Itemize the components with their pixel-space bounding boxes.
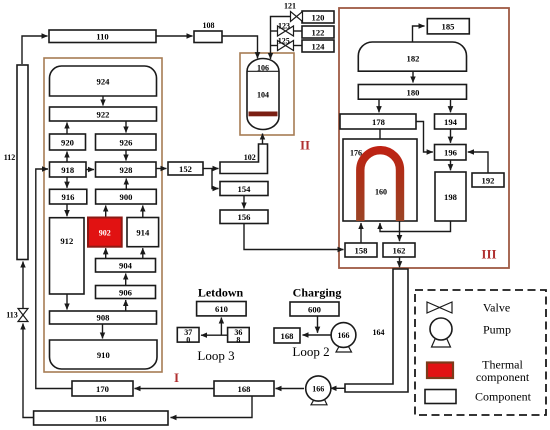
wire 108 to tank top <box>222 36 258 58</box>
component 158 <box>345 243 377 257</box>
component 914 <box>127 218 159 247</box>
svg-text:928: 928 <box>120 165 134 175</box>
wire 154 to 156 <box>243 196 245 209</box>
wire 170 to 918 <box>36 169 72 389</box>
component 370 <box>177 328 199 343</box>
component 922 <box>50 107 157 121</box>
svg-text:106: 106 <box>257 64 269 73</box>
svg-text:920: 920 <box>61 138 74 148</box>
svg-text:Pump: Pump <box>483 323 511 337</box>
svg-text:121: 121 <box>284 2 296 11</box>
wire 178 to 196 <box>416 122 433 153</box>
wire pipe 102 to tank bottom <box>262 134 264 145</box>
component 610 <box>197 302 247 316</box>
wire 922 to 926 <box>125 121 127 133</box>
wire 924 to 922 <box>102 96 104 106</box>
svg-text:196: 196 <box>444 148 458 158</box>
svg-text:158: 158 <box>355 246 369 256</box>
svg-text:108: 108 <box>203 21 215 30</box>
wire 914 to 900 <box>142 206 144 218</box>
wire 368 to 370 <box>201 334 228 336</box>
component 156 <box>220 210 268 224</box>
component 920 <box>50 134 86 150</box>
valve 125 <box>278 41 294 51</box>
wire junction to 610 <box>220 318 222 336</box>
component 176 box <box>343 139 417 221</box>
wire pipe 164 to pump 166 <box>331 387 346 389</box>
component 108 <box>194 31 222 43</box>
svg-text:192: 192 <box>482 176 495 186</box>
svg-text:component: component <box>476 370 530 384</box>
svg-text:120: 120 <box>312 13 325 23</box>
legend component <box>425 390 456 404</box>
wire 918 to 928 <box>86 169 94 171</box>
region I border <box>44 58 162 372</box>
wire to valve 123 <box>271 30 278 32</box>
pipe 164 <box>345 269 408 392</box>
wire valve 113 to 112 <box>22 262 24 309</box>
pump 166 charging <box>336 347 352 353</box>
component 168 bottom <box>214 381 274 396</box>
svg-text:910: 910 <box>97 350 110 360</box>
wire 904 to 914 <box>142 248 144 258</box>
svg-text:Charging: Charging <box>293 286 342 300</box>
valve 121 <box>291 12 303 22</box>
svg-text:8: 8 <box>236 336 240 345</box>
svg-text:II: II <box>300 138 310 153</box>
component 918 <box>50 162 87 177</box>
svg-text:900: 900 <box>120 192 133 202</box>
svg-text:178: 178 <box>372 117 386 127</box>
component 116 <box>34 411 168 425</box>
tank thermal band <box>249 112 278 117</box>
component 906 <box>96 286 156 299</box>
svg-text:168: 168 <box>281 331 295 341</box>
component 170 <box>72 381 133 396</box>
wire 928 to 152 <box>156 168 167 170</box>
svg-text:164: 164 <box>373 328 385 337</box>
legend thermal component <box>427 363 453 379</box>
wire 156 to 158 <box>244 224 344 250</box>
svg-text:160: 160 <box>375 188 387 197</box>
svg-text:III: III <box>481 247 496 262</box>
svg-text:Loop 3: Loop 3 <box>197 348 234 363</box>
svg-text:154: 154 <box>238 184 252 194</box>
component 368 <box>228 328 250 343</box>
wire 920 to 922 <box>66 123 68 135</box>
wire 116 to valve 113 <box>23 324 34 418</box>
wire 182 to 180 <box>412 71 414 82</box>
svg-text:168: 168 <box>238 384 252 394</box>
component 908 <box>50 311 157 324</box>
svg-text:198: 198 <box>444 192 458 202</box>
component 180 <box>358 85 466 100</box>
wire 168 to 170 <box>135 388 215 390</box>
svg-text:902: 902 <box>99 229 111 238</box>
valve 123 <box>278 26 294 36</box>
component 194 <box>435 114 467 129</box>
component 162 <box>383 243 415 257</box>
svg-text:Component: Component <box>475 390 532 404</box>
pipe 102 <box>220 144 268 174</box>
thermal component 902 <box>88 218 122 247</box>
component 168 charging <box>274 328 300 343</box>
wire pump 166 to 168 charging <box>303 334 332 336</box>
svg-text:912: 912 <box>60 236 73 246</box>
wire 198 return to 176 <box>380 221 451 232</box>
wire 180 to 178 <box>378 99 380 112</box>
svg-text:152: 152 <box>179 164 192 174</box>
wire 904 to 902 <box>105 248 107 258</box>
region III border <box>339 8 509 268</box>
svg-text:610: 610 <box>215 304 228 314</box>
wire 194 to 196 <box>450 129 452 143</box>
legend valve symbol <box>427 302 452 313</box>
wire 918 to 920 <box>66 152 68 163</box>
component 198 <box>435 172 466 221</box>
component 110 <box>49 30 156 43</box>
component 122 <box>302 26 334 38</box>
component 926 <box>96 134 157 150</box>
component 600 <box>290 302 339 316</box>
component 182 <box>358 42 466 71</box>
svg-text:194: 194 <box>444 117 458 127</box>
valve 113 <box>18 309 28 322</box>
component 900 <box>96 189 157 204</box>
legend border <box>415 290 546 415</box>
svg-text:906: 906 <box>119 288 133 298</box>
component 916 <box>50 189 87 204</box>
wire 162 to pipe 164 <box>399 257 401 267</box>
wire 152 to pipe 102 <box>203 168 219 170</box>
svg-text:166: 166 <box>312 385 324 394</box>
thermal U-tube 160 <box>360 150 400 221</box>
component 928 <box>96 162 157 177</box>
svg-text:180: 180 <box>407 88 420 98</box>
svg-text:904: 904 <box>119 261 133 271</box>
svg-text:916: 916 <box>62 192 76 202</box>
component 910 <box>50 340 158 369</box>
wire 158 to 176 <box>360 223 362 243</box>
svg-text:185: 185 <box>442 22 455 32</box>
wire 168 to 116 <box>171 396 253 418</box>
wire valve 125 to box 124 <box>294 45 303 47</box>
wire 178 to 176 <box>379 129 381 139</box>
component 124 <box>302 40 334 52</box>
component 185 <box>427 19 469 34</box>
svg-text:123: 123 <box>278 22 290 31</box>
component 178 <box>340 114 416 129</box>
svg-text:124: 124 <box>312 42 326 52</box>
wire 180 to 194 <box>450 99 452 112</box>
wire 916 to 912 <box>66 204 68 216</box>
wire 912 to 908 <box>66 294 68 310</box>
svg-text:922: 922 <box>97 110 110 120</box>
svg-text:924: 924 <box>97 77 111 87</box>
svg-text:Valve: Valve <box>483 301 510 315</box>
component 152 <box>168 162 203 175</box>
svg-text:125: 125 <box>278 37 290 46</box>
svg-text:600: 600 <box>308 305 321 315</box>
svg-text:Loop 2: Loop 2 <box>292 344 329 359</box>
wire 926 to 928 <box>125 150 127 161</box>
svg-text:102: 102 <box>244 153 256 162</box>
svg-text:914: 914 <box>136 228 150 238</box>
svg-text:170: 170 <box>96 384 109 394</box>
svg-text:908: 908 <box>97 313 111 323</box>
component 120 <box>302 11 334 23</box>
wire 182 to 185 <box>413 26 425 43</box>
svg-text:156: 156 <box>238 212 252 222</box>
wire 918 to 916 <box>66 177 68 188</box>
svg-text:110: 110 <box>96 32 108 42</box>
svg-text:Letdown: Letdown <box>198 286 244 300</box>
component 924 <box>50 66 157 96</box>
svg-text:918: 918 <box>61 165 75 175</box>
wire 908 to 906 <box>125 300 127 311</box>
component 904 <box>96 259 156 273</box>
svg-text:176: 176 <box>350 149 362 158</box>
pump 166 bottom <box>311 400 327 405</box>
wire 112 to 110 <box>22 36 48 64</box>
svg-text:I: I <box>174 370 179 385</box>
wire pump 166 to 168 <box>276 388 305 390</box>
legend pump symbol <box>432 338 451 347</box>
wire 152 fork to 154 <box>212 169 219 189</box>
wire valve 123 to box 122 <box>294 30 303 32</box>
svg-text:113: 113 <box>6 311 18 320</box>
component 192 <box>472 173 504 187</box>
tank divider <box>247 70 279 72</box>
wire 196 to 198 <box>450 160 452 170</box>
wire 192 to 196 <box>468 152 488 173</box>
component 912 <box>50 218 85 294</box>
wire valve header down to tank top <box>271 17 291 60</box>
component 112 <box>17 65 28 260</box>
component 154 <box>220 182 268 196</box>
svg-text:104: 104 <box>257 91 269 100</box>
wire 600 down <box>317 316 319 333</box>
svg-text:182: 182 <box>407 54 420 64</box>
wire 176 to 162 <box>399 221 401 241</box>
wire 906 to 904 <box>125 274 127 286</box>
component 196 <box>435 145 467 161</box>
wire 902 to 900 <box>105 206 107 218</box>
wire 110 to 108 <box>156 35 193 37</box>
tank 104 106 <box>247 59 279 130</box>
svg-text:112: 112 <box>4 153 16 162</box>
wire to valve 125 <box>271 45 278 47</box>
region II border <box>240 53 294 135</box>
svg-text:926: 926 <box>120 138 134 148</box>
svg-text:0: 0 <box>186 336 190 345</box>
wire 908 to 910 <box>102 324 104 339</box>
svg-text:116: 116 <box>95 415 107 424</box>
svg-text:162: 162 <box>393 246 406 256</box>
svg-text:122: 122 <box>312 28 325 38</box>
svg-text:166: 166 <box>338 331 350 340</box>
wire 900 to 928 <box>125 179 127 190</box>
